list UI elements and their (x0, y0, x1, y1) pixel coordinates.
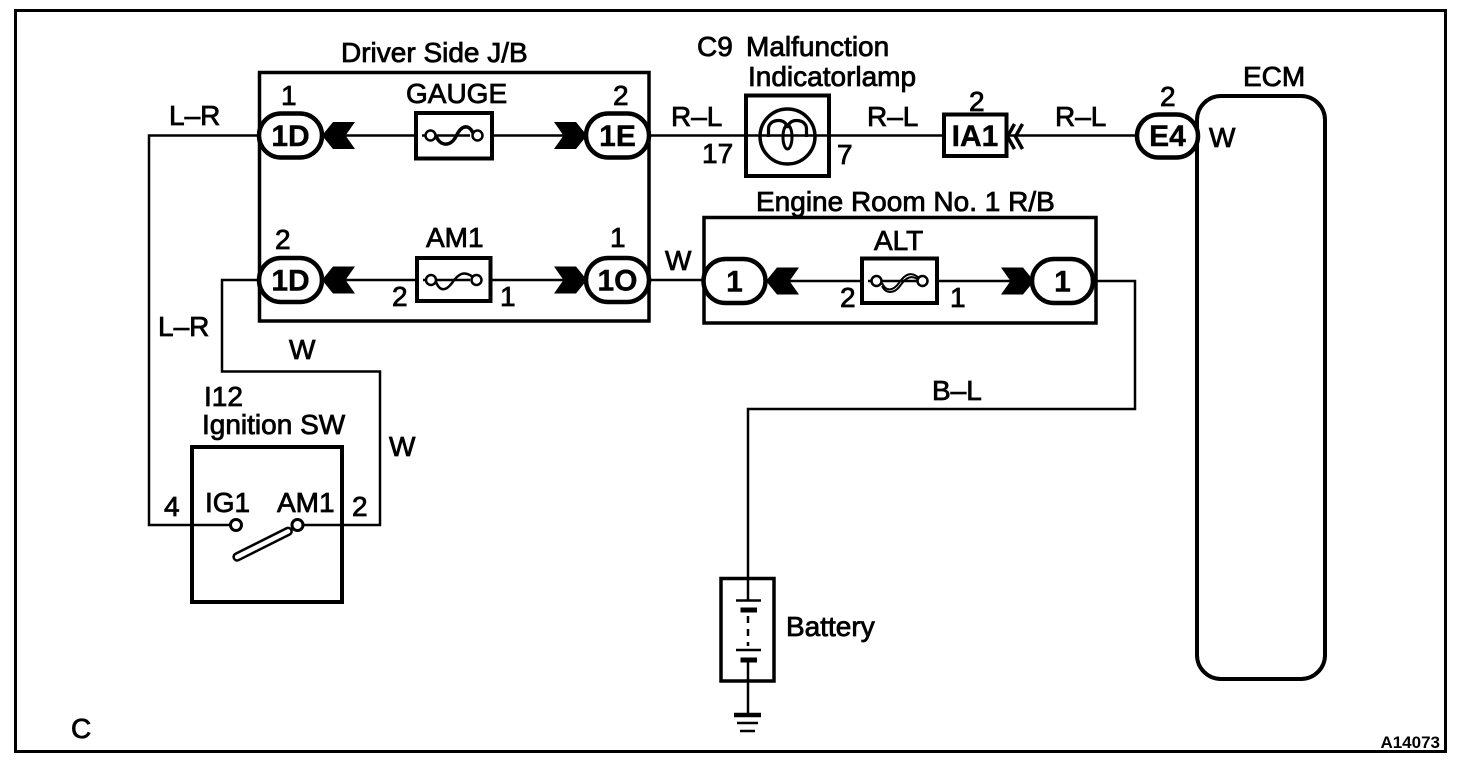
connector 1D pin 1 (259, 114, 322, 158)
svg-text:AM1: AM1 (426, 222, 484, 253)
relay block Engine Room No. 1 R/B (704, 218, 1096, 324)
svg-text:Engine Room No. 1 R/B: Engine Room No. 1 R/B (756, 186, 1055, 217)
fuse GAUGE (416, 113, 492, 159)
svg-text:W: W (1209, 122, 1236, 153)
battery (721, 579, 774, 682)
svg-text:7: 7 (837, 139, 853, 170)
wire B-L from ALT output to battery (748, 281, 1135, 580)
svg-text:Driver Side J/B: Driver Side J/B (341, 37, 528, 68)
connector arrow at right connector 1 (1001, 268, 1034, 295)
terminal IG1 (231, 520, 242, 531)
connector arrow at 1D pin1 (322, 122, 355, 149)
svg-text:B–L: B–L (932, 375, 982, 406)
connector 1O pin 1 (586, 258, 649, 302)
svg-text:2: 2 (352, 491, 368, 522)
svg-text:2: 2 (969, 86, 985, 117)
ECM block (1197, 96, 1325, 679)
connector IA1 (944, 115, 1007, 157)
svg-text:1: 1 (500, 281, 516, 312)
svg-text:1: 1 (950, 282, 966, 313)
svg-text:L–R: L–R (158, 311, 209, 342)
svg-text:R–L: R–L (867, 101, 918, 132)
svg-text:17: 17 (702, 138, 733, 169)
connector arrow at lower 1D (322, 267, 355, 294)
connector E4 pin 2 (1137, 115, 1198, 158)
svg-text:ECM: ECM (1243, 61, 1305, 92)
svg-text:A14073: A14073 (1380, 733, 1440, 752)
svg-text:W: W (389, 431, 416, 462)
svg-text:I12: I12 (204, 381, 243, 412)
svg-text:Malfunction: Malfunction (746, 31, 889, 62)
svg-text:W: W (665, 245, 692, 276)
connector arrow at 1O (554, 267, 587, 294)
svg-text:2: 2 (1160, 81, 1176, 112)
ignition switch I12 (192, 447, 342, 602)
svg-text:4: 4 (164, 491, 180, 522)
svg-text:2: 2 (613, 80, 629, 111)
svg-text:C: C (71, 713, 91, 744)
svg-text:R–L: R–L (1055, 101, 1106, 132)
wire battery to ground (747, 681, 750, 714)
junction block Driver Side J/B (260, 73, 650, 322)
svg-text:AM1: AM1 (277, 487, 335, 518)
svg-text:2: 2 (275, 224, 291, 255)
svg-text:GAUGE: GAUGE (406, 78, 507, 109)
svg-text:IG1: IG1 (205, 487, 250, 518)
wire row2 inside Driver Side J/B (300, 279, 610, 282)
wire row1 from 1E to E4 (649, 134, 1137, 137)
fuse AM1 (417, 258, 491, 301)
svg-text:1: 1 (1054, 266, 1071, 299)
svg-text:W: W (289, 334, 316, 365)
wire L-R from 1D pin1 to ignition switch IG1 (149, 136, 259, 526)
svg-text:E4: E4 (1149, 120, 1186, 153)
svg-text:C9: C9 (697, 31, 733, 62)
connector arrow at left connector 1 (766, 268, 799, 295)
svg-text:ALT: ALT (874, 225, 923, 256)
switch lever (232, 527, 292, 562)
svg-text:2: 2 (840, 282, 856, 313)
svg-text:Battery: Battery (786, 611, 875, 642)
svg-text:R–L: R–L (671, 101, 722, 132)
connector 1E pin 2 (586, 114, 649, 158)
svg-text:2: 2 (392, 281, 408, 312)
chevron arrows at IA1 (1008, 124, 1023, 149)
svg-text:Indicatorlamp: Indicatorlamp (748, 61, 916, 92)
svg-text:1: 1 (281, 80, 297, 111)
svg-text:Ignition SW: Ignition SW (202, 409, 346, 440)
lamp C9 malfunction indicator (746, 96, 829, 177)
ground (734, 715, 761, 731)
connector arrow at 1E (554, 122, 587, 149)
terminal AM1 (292, 520, 303, 531)
wire row1 inside Driver Side J/B (300, 134, 610, 137)
connector 1D pin 2 (259, 258, 322, 302)
svg-text:1: 1 (610, 222, 626, 253)
wire row2 from 1O to Engine Room R/B (649, 279, 706, 282)
svg-text:1E: 1E (599, 120, 636, 153)
connector 1 (left, Engine Room R/B) (704, 259, 766, 303)
fuse ALT (862, 259, 937, 304)
svg-text:1O: 1O (597, 265, 637, 298)
wire inside Engine Room R/B (740, 280, 1060, 283)
svg-text:1: 1 (726, 266, 743, 299)
svg-text:1D: 1D (271, 120, 309, 153)
connector 1 (right, Engine Room R/B) (1032, 259, 1093, 303)
svg-text:1D: 1D (271, 265, 309, 298)
wire W from 1D pin2 to ignition switch AM1 (222, 280, 380, 525)
svg-text:IA1: IA1 (952, 120, 999, 153)
svg-text:L–R: L–R (169, 100, 220, 131)
